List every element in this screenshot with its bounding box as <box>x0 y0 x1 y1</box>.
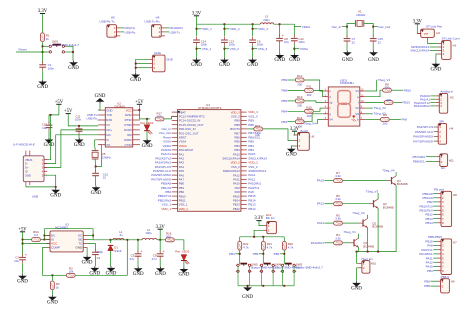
wire X1 right <box>364 23 373 36</box>
wire H9 PB8 <box>430 285 437 287</box>
wire H3 PA1/A1 <box>430 98 435 100</box>
wire R16 to LED3 <box>175 240 184 250</box>
connector H5 <box>107 25 120 38</box>
junction VCC <box>138 109 140 111</box>
svg-text:200: 200 <box>386 98 391 102</box>
svg-text:PB8-PB15: PB8-PB15 <box>428 235 442 239</box>
junction VDD tap C14 <box>196 28 198 30</box>
svg-text:PB5: PB5 <box>253 252 259 256</box>
ground CH340 (above) <box>95 94 106 104</box>
svg-text:USB-Tx-Rx: USB-Tx-Rx <box>144 19 160 23</box>
net labels MCU right <box>248 110 267 211</box>
capacitor C7 <box>344 35 351 44</box>
wire rail to R22 <box>239 237 241 241</box>
svg-text:PA11: PA11 <box>317 221 324 225</box>
wire LED2 to GND <box>146 131 148 139</box>
svg-text:200: 200 <box>307 114 312 118</box>
wire H9 PB9 <box>430 280 437 282</box>
svg-text:PA12: PA12 <box>317 202 324 206</box>
ground C6 <box>247 58 258 68</box>
resistor R8 <box>383 88 392 92</box>
svg-text:GND: GND <box>368 58 379 63</box>
wire VSSA stub <box>294 48 299 50</box>
svg-text:22: 22 <box>378 40 382 44</box>
svg-text:USB-Rx: USB-Rx <box>125 30 136 34</box>
svg-text:10u: 10u <box>14 259 19 263</box>
wire D+ to UD+ <box>44 130 98 168</box>
junction SC <box>92 235 94 237</box>
svg-text:GND: GND <box>37 85 48 90</box>
junction C2 <box>22 243 24 245</box>
wire LED3 to GND <box>183 261 185 267</box>
ground Boot0 <box>286 147 297 157</box>
connector H2 <box>418 29 435 37</box>
svg-text:GND: GND <box>247 63 258 68</box>
wire PB6 label stub <box>280 253 284 255</box>
svg-text:GND: GND <box>178 273 189 278</box>
capacitor C14 <box>193 37 200 46</box>
wire C3 to GND <box>137 260 139 267</box>
svg-text:dp: dp <box>329 101 333 105</box>
svg-text:GND: GND <box>106 108 112 112</box>
power flag +5V regulator <box>18 227 27 232</box>
junction VSSA tap <box>293 48 295 50</box>
wire usb gnd pin <box>44 175 56 187</box>
junction RSC <box>22 239 24 241</box>
wire H8 PB0/A8 <box>433 193 437 195</box>
wire PA11 to R5 <box>324 222 333 224</box>
svg-text:H8: H8 <box>453 193 457 197</box>
wire VDDA stub <box>294 26 301 28</box>
power flag +5V ch340 <box>64 109 73 114</box>
svg-text:VDD_1: VDD_1 <box>202 27 212 31</box>
svg-text:12MHz: 12MHz <box>356 13 366 17</box>
svg-text:PB port: PB port <box>434 187 444 191</box>
wire PA12 to R6 <box>324 203 333 205</box>
svg-text:GND: GND <box>154 51 162 55</box>
ground C16 <box>44 138 55 148</box>
wire DC tie <box>43 229 45 240</box>
svg-text:200: 200 <box>297 83 302 87</box>
junction emitter rail Q1 <box>356 251 358 253</box>
svg-text:RXD: RXD <box>106 118 112 122</box>
wire Osc_Out stub <box>373 26 378 28</box>
svg-text:PB9: PB9 <box>424 279 430 283</box>
svg-text:GND: GND <box>50 193 61 198</box>
display LED1 body <box>323 87 366 126</box>
svg-text:PB3: PB3 <box>281 120 287 124</box>
wire H7 PA15 <box>433 266 437 268</box>
connector H1 <box>438 41 451 60</box>
wire SC riser <box>92 229 94 240</box>
wire R12 to display pin <box>305 80 323 91</box>
wire rail down C14 <box>196 24 198 36</box>
svg-text:GND: GND <box>17 279 28 284</box>
svg-text:H4: H4 <box>450 126 454 130</box>
wire D1 to GND <box>110 251 112 267</box>
wire H6 pin2 <box>165 31 169 33</box>
svg-text:7Seg_V2: 7Seg_V2 <box>374 106 387 110</box>
crystal U5 <box>92 151 99 159</box>
ground R3 <box>47 295 58 305</box>
wire H7 PA11 <box>433 257 437 259</box>
ic U3 MC34063 body <box>47 231 87 252</box>
wire rail to H10 pin1 <box>357 252 359 264</box>
resistor R2 <box>66 273 75 277</box>
resistor R16 <box>166 238 175 242</box>
wire 3.3V to R1 <box>42 14 44 33</box>
svg-text:GND: GND <box>82 261 93 266</box>
svg-text:Analog In: Analog In <box>440 89 453 93</box>
svg-text:V2: V2 <box>355 106 359 110</box>
svg-text:3.3k: 3.3k <box>335 236 341 240</box>
svg-text:GND: GND <box>289 58 300 63</box>
wire R1 to reset node <box>42 42 44 52</box>
svg-text:pwr: pwr <box>424 32 428 36</box>
svg-text:7Seg_V3: 7Seg_V3 <box>366 189 379 193</box>
svg-text:Reset: Reset <box>19 48 27 52</box>
svg-text:V3: V3 <box>355 112 359 116</box>
wire PB9 to R12 <box>287 79 295 81</box>
power flag 3.3V boot0 <box>290 127 300 132</box>
wire crystal top <box>94 146 96 150</box>
svg-text:R9: R9 <box>383 113 387 117</box>
svg-text:GND: GND <box>47 300 58 305</box>
svg-text:10u: 10u <box>284 40 289 44</box>
ground buttons <box>242 286 253 300</box>
junction LED2 <box>146 118 148 120</box>
svg-text:VBUS: VBUS <box>25 158 33 162</box>
svg-text:47u: 47u <box>152 257 157 261</box>
wire C9 to GND <box>159 260 161 267</box>
svg-text:VDD_1: VDD_1 <box>161 207 171 211</box>
svg-text:200: 200 <box>307 93 312 97</box>
resistor R11 <box>305 89 314 93</box>
wire H4 PA7/SPI-MOSI <box>434 140 435 142</box>
svg-text:4u: 4u <box>119 233 123 237</box>
svg-text:100: 100 <box>157 114 162 118</box>
wire rail down C6 <box>252 24 254 36</box>
resistor R7 <box>334 179 343 183</box>
svg-text:4.7k: 4.7k <box>267 246 273 250</box>
resistor R4 <box>334 241 343 245</box>
svg-text:UD+: UD+ <box>106 128 112 132</box>
wire X1 left <box>347 23 355 36</box>
svg-text:7Seg_V4: 7Seg_V4 <box>303 122 316 126</box>
junction Osc_In <box>346 26 348 28</box>
svg-text:GND: GND <box>155 272 166 277</box>
transistor Q2 <box>359 219 368 228</box>
svg-text:1k: 1k <box>46 37 50 41</box>
svg-text:D-: D- <box>25 162 28 166</box>
wire R3 to GND <box>51 290 53 295</box>
svg-text:VSSA: VSSA <box>300 47 308 51</box>
ground ST-Link <box>430 62 441 72</box>
wire R15 to display pin <box>314 108 323 111</box>
ground C8 <box>274 53 285 63</box>
capacitor C16 <box>46 122 53 131</box>
svg-text:BC846B: BC846B <box>397 182 408 186</box>
resistor R1 <box>41 33 45 42</box>
wire PB4 to R15 <box>287 110 304 112</box>
junction VSS tap 3 <box>252 48 254 50</box>
connector H12 <box>263 222 277 234</box>
svg-text:ST-Link Conn: ST-Link Conn <box>442 36 461 40</box>
diode D1 <box>108 245 114 250</box>
wire SWCLK <box>430 50 438 52</box>
wire +5V down <box>138 104 140 119</box>
wire to RSC <box>23 239 32 241</box>
svg-text:BC846B: BC846B <box>383 205 394 209</box>
wire pin9 7SegV2 <box>365 107 372 109</box>
svg-text:DTR#: DTR# <box>124 123 132 127</box>
svg-text:XI: XI <box>106 138 109 142</box>
wire R11 to display pin <box>314 90 323 96</box>
svg-text:V1: V1 <box>355 89 359 93</box>
junction rail btn2 <box>262 236 264 238</box>
svg-text:1k: 1k <box>56 285 60 289</box>
wire C2 to GND <box>22 263 24 274</box>
svg-text:PA5/SPI-CLK: PA5/SPI-CLK <box>415 130 433 134</box>
svg-text:VDD_1: VDD_1 <box>179 207 188 211</box>
wire H11 SDA <box>426 156 436 158</box>
inductor L3 <box>260 23 273 24</box>
junction vbus <box>50 114 52 116</box>
wire D- to UD- <box>44 135 98 164</box>
wire H11 SCL <box>426 161 436 163</box>
wire Q3 emitter <box>377 208 379 251</box>
wire C6 to GND <box>252 46 254 58</box>
junction reset node B <box>42 51 44 53</box>
capacitor C2 <box>19 252 28 263</box>
ic U2 CH340G body <box>98 108 140 147</box>
wire C7 to GND <box>346 44 348 50</box>
svg-text:330p: 330p <box>97 250 104 254</box>
svg-text:PB12: PB12 <box>248 207 256 211</box>
transistor Q4 <box>387 176 396 185</box>
svg-text:USB-Rx-Tx: USB-Rx-Tx <box>99 19 115 23</box>
transistor Q3 <box>369 199 378 208</box>
wire 3.3V flag <box>159 229 161 240</box>
svg-text:R14: R14 <box>297 116 303 120</box>
wire 3.3V to boot jumper <box>293 131 296 135</box>
ground C7 <box>342 51 353 63</box>
wire Q4 collector <box>395 172 397 176</box>
junction feedback <box>51 274 53 276</box>
svg-text:GND: GND <box>95 94 106 99</box>
net labels MCU left <box>151 127 171 211</box>
junction emitter rail Q2 <box>367 251 369 253</box>
capacitor C3 <box>135 248 144 259</box>
junction gnd rail b2 <box>262 285 264 287</box>
svg-text:VDD_2: VDD_2 <box>230 27 240 31</box>
svg-text:100n: 100n <box>298 40 305 44</box>
ground C3 <box>133 267 144 277</box>
svg-text:H10: H10 <box>371 262 377 266</box>
capacitor C10 <box>92 170 99 179</box>
wire TC to C4 <box>87 244 96 251</box>
svg-text:VDDA: VDDA <box>302 25 312 29</box>
junction rail C13 <box>223 23 225 25</box>
junction 3V3 out <box>159 239 161 241</box>
svg-text:USB: USB <box>32 195 38 199</box>
wire to DC pin <box>44 235 50 237</box>
svg-text:PA15: PA15 <box>317 179 324 183</box>
ground header <box>130 73 141 83</box>
button SW1 <box>48 44 65 53</box>
wire R8 to PB15 <box>392 89 403 91</box>
svg-text:4.7k: 4.7k <box>243 246 249 250</box>
wire button gnd rail <box>238 285 294 287</box>
wire SW1 pin4 join <box>66 51 73 53</box>
wire R17 to PC13 <box>164 116 177 119</box>
connector H6 <box>152 25 165 38</box>
power flag 3.3V stlink <box>413 19 423 24</box>
wire rail to R20 <box>283 237 285 241</box>
wire VDD label stub C13 <box>224 28 229 30</box>
wire R13 to display pin <box>305 101 323 103</box>
wire R10 to PB13 <box>393 101 402 103</box>
svg-text:LED3: LED3 <box>182 250 190 254</box>
wire VDD label stub C14 <box>197 28 202 30</box>
svg-text:PB8: PB8 <box>424 284 430 288</box>
ground LED2 <box>142 139 153 149</box>
junction PB4 tap <box>239 253 241 255</box>
wire H8 PB10/Tx3 <box>433 205 437 207</box>
wire H8 PB13 <box>433 218 437 220</box>
svg-text:H3: H3 <box>450 96 454 100</box>
svg-text:7Seg_V1: 7Seg_V1 <box>378 78 391 82</box>
wire C4 to GND <box>94 258 96 266</box>
svg-text:CTS#: CTS# <box>125 143 133 147</box>
junction VSS tap 1 <box>196 48 198 50</box>
wire H7 PA9/Tx1 <box>433 249 437 251</box>
wire R7 to Q4 base <box>343 180 387 182</box>
wire to R3 <box>51 275 53 280</box>
svg-text:PB8: PB8 <box>248 123 254 127</box>
wire H8 PB12 <box>433 213 437 215</box>
wire to SW1 pin1 <box>43 45 49 47</box>
svg-text:10k: 10k <box>255 133 260 137</box>
wire Q3 collector <box>377 193 379 199</box>
wire pin11 to R8 <box>365 90 382 97</box>
crystal X1 <box>355 20 363 27</box>
wire SW1 pin3 to GND <box>66 46 73 60</box>
wire display pin6 V4 <box>316 120 323 124</box>
power flag 3.3V rail <box>192 11 202 16</box>
junction emitter rail Q3 <box>377 251 379 253</box>
connector H4 <box>435 123 447 144</box>
svg-text:200n: 200n <box>263 18 270 22</box>
svg-text:Osc_In: Osc_In <box>332 25 342 29</box>
wire PB5 to R13 <box>287 100 295 102</box>
svg-text:47u: 47u <box>129 257 134 261</box>
svg-text:PA10/Rx1: PA10/Rx1 <box>311 241 325 245</box>
wire R4 to Q1 base <box>343 242 350 244</box>
svg-text:200: 200 <box>385 86 390 90</box>
ground USB <box>50 188 61 198</box>
wire R20 to SW3 <box>283 250 285 264</box>
svg-text:GND: GND <box>242 295 253 300</box>
junction gnd rail tap <box>247 285 249 287</box>
svg-text:GND: GND <box>25 173 31 177</box>
svg-text:GND: GND <box>91 191 102 196</box>
svg-text:200: 200 <box>166 235 171 239</box>
junction feedback tap <box>126 239 128 241</box>
ground C9 <box>155 267 166 277</box>
wire to gnd usb <box>55 187 57 188</box>
wire C8 to GND <box>279 44 281 53</box>
wire SW5 right to gnd rail <box>249 267 251 286</box>
wire PB4 label stub <box>235 253 239 255</box>
connector H7 <box>437 239 451 275</box>
connector GND header <box>149 55 165 72</box>
wire node to L2 <box>138 239 142 241</box>
junction C11 <box>78 125 80 127</box>
junction rail H12 <box>253 236 255 238</box>
wire LED2 anode <box>146 119 148 125</box>
wire C15 to GND <box>372 44 374 50</box>
svg-text:USB-Tx: USB-Tx <box>170 30 181 34</box>
power flag +5V vcc <box>135 100 144 105</box>
wire to led2 node <box>139 118 150 120</box>
svg-text:ST-Link Pwr: ST-Link Pwr <box>426 25 442 29</box>
wire 3.3V to H2 <box>417 24 420 34</box>
svg-text:MC34063: MC34063 <box>55 226 68 230</box>
wire VBUS riser <box>44 115 51 160</box>
svg-text:0.2: 0.2 <box>34 233 38 237</box>
wire TXD stub <box>96 114 99 116</box>
inductor L1 <box>113 238 124 239</box>
wire to C2 <box>22 244 24 256</box>
svg-text:GND: GND <box>89 272 100 277</box>
svg-text:H1: H1 <box>453 43 457 47</box>
junction usb gnd <box>55 186 57 188</box>
connector H11 <box>436 154 447 167</box>
svg-text:R232: R232 <box>125 113 132 117</box>
wire VDD label stub C6 <box>253 28 258 30</box>
svg-text:GND: GND <box>351 287 362 292</box>
resistor R21 <box>261 241 265 250</box>
wire H8 PB2 <box>433 201 437 203</box>
wire to IS pin <box>44 239 50 241</box>
wire to C10 <box>95 167 97 172</box>
wire L2 to R16 <box>157 239 165 241</box>
wire feedback to output <box>76 240 128 275</box>
ground C13 <box>219 58 230 68</box>
junction reset node A <box>42 45 44 47</box>
svg-text:R12: R12 <box>297 74 303 78</box>
wire Q1 collector <box>358 234 360 239</box>
svg-text:200: 200 <box>382 121 387 125</box>
svg-text:100u: 100u <box>145 231 152 235</box>
connector H9 <box>437 279 449 293</box>
wire C12 to GND <box>293 44 295 53</box>
wire BOOT0 to R19 <box>247 128 254 130</box>
svg-text:10u: 10u <box>42 126 47 130</box>
svg-text:PB4: PB4 <box>281 110 287 114</box>
wire +5V down reg <box>22 232 24 244</box>
inductor L2 <box>142 238 157 239</box>
junction gnd hdr a <box>135 63 137 65</box>
svg-text:GND: GND <box>166 57 174 61</box>
wire H3 PA3/A3/Rx2 <box>430 105 435 107</box>
svg-text:GND: GND <box>430 67 441 72</box>
wire rail down C13 <box>223 24 225 36</box>
svg-text:PA8: PA8 <box>401 118 407 122</box>
resistor R5 <box>334 221 343 225</box>
wire V3 line <box>68 114 98 126</box>
